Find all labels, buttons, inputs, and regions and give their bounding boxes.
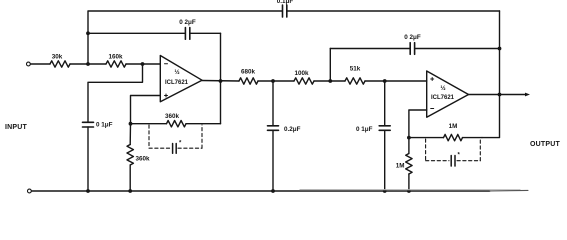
wire 100k to node D	[314, 80, 345, 82]
resistor R8 1M feedback	[444, 123, 463, 141]
wire 0.2uF feedback line (second stage)	[330, 48, 410, 50]
svg-text:½: ½	[440, 84, 445, 92]
op-amp U1 1/2 ICL7621	[160, 56, 202, 102]
svg-text:0 1μF: 0 1μF	[96, 122, 113, 129]
svg-text:ICL7621: ICL7621	[165, 80, 189, 86]
wire 680k to node C	[258, 80, 294, 82]
junction node A top	[86, 31, 90, 35]
junction C3 rail	[271, 189, 275, 193]
junction feedback left node	[129, 122, 133, 126]
svg-text:*: *	[458, 153, 461, 159]
resistor R7 5.1k	[345, 66, 365, 85]
wire node A up	[87, 33, 89, 64]
capacitor top coupling (label clipped at top edge)	[277, 0, 500, 17]
input terminal	[27, 62, 31, 66]
capacitor C3 0.2uF shunt	[268, 126, 301, 133]
resistor R1 30k	[50, 54, 70, 68]
svg-text:360k: 360k	[165, 113, 180, 120]
wire op-amp U1 output	[202, 80, 239, 83]
wire node E shunt leg	[384, 81, 386, 126]
resistor R2 160k	[106, 54, 126, 68]
capacitor C1 0.2uF	[179, 19, 220, 39]
wire op-amp U2 minus input	[409, 110, 427, 138]
wire input lead	[30, 63, 50, 65]
resistor R3 360k feedback	[165, 113, 186, 127]
output arrowhead	[525, 93, 530, 97]
svg-text:0.1μF: 0.1μF	[277, 0, 294, 5]
junction R9 rail	[407, 189, 411, 193]
wire 360k leg	[129, 124, 131, 191]
wire top rail left segment	[88, 11, 282, 33]
junction C2 rail	[86, 189, 90, 193]
junction R4 rail	[128, 189, 132, 193]
resistor R5 680k	[239, 69, 258, 85]
wire ground rail scan smudge	[300, 189, 520, 191]
wire feedback line U2	[409, 137, 482, 139]
svg-text:OUTPUT: OUTPUT	[530, 141, 561, 148]
svg-text:1M: 1M	[396, 163, 405, 170]
junction C4 right	[498, 47, 502, 51]
dashed compensation box U2	[426, 139, 481, 161]
junction feedback left node U2	[407, 136, 411, 140]
dashed compensation box U1	[149, 125, 202, 148]
junction U1 output	[219, 79, 223, 83]
capacitor C5 0.1uF shunt	[356, 126, 390, 133]
svg-text:0 1μF: 0 1μF	[356, 126, 373, 133]
svg-text:½: ½	[174, 68, 179, 76]
resistor R9 1M to ground	[396, 154, 412, 175]
wire C5 to rail	[384, 130, 386, 191]
svg-text:100k: 100k	[294, 70, 309, 77]
op-amp U2 1/2 ICL7621	[427, 71, 469, 117]
svg-text:160k: 160k	[108, 54, 123, 61]
svg-text:1M: 1M	[449, 123, 458, 130]
svg-text:360k: 360k	[136, 156, 151, 163]
wire node B down to 0.1uF leg	[88, 64, 143, 122]
svg-text:0 2μF: 0 2μF	[179, 19, 196, 26]
svg-text:0 2μF: 0 2μF	[404, 34, 421, 41]
wire feedback line U1	[131, 123, 221, 125]
node D junction	[328, 79, 332, 83]
resistor R4 360k to ground	[127, 145, 150, 166]
wire ground rail faded end	[490, 189, 528, 192]
node B	[141, 62, 145, 66]
svg-text:0.2μF: 0.2μF	[284, 126, 301, 133]
node A	[86, 62, 90, 66]
wire 30k to node A	[70, 63, 106, 65]
capacitor C2 0.1uF shunt	[83, 122, 113, 129]
wire right bracket of first stage	[220, 33, 222, 123]
wire 0.2uF feedback line (first stage)	[88, 32, 185, 34]
wire 1M leg	[408, 138, 410, 191]
junction U2 output	[498, 93, 502, 97]
svg-text:680k: 680k	[241, 69, 256, 76]
capacitor C* optional U2	[451, 153, 460, 167]
svg-text:ICL7621: ICL7621	[431, 95, 455, 101]
svg-text:51k: 51k	[350, 66, 361, 73]
wire op-amp U2 output	[469, 94, 527, 96]
svg-text:INPUT: INPUT	[5, 124, 28, 131]
node C junction	[271, 79, 275, 83]
capacitor C* optional U1	[173, 141, 182, 154]
wire 5.1k to op-amp U2	[365, 80, 427, 82]
wire U2 output right bracket down	[482, 11, 500, 138]
capacitor C4 0.2uF feedback	[404, 34, 499, 54]
wire C3 to rail	[272, 130, 274, 191]
wire node C shunt leg	[272, 81, 274, 126]
wire node D up to 0.2uF feedback	[329, 49, 331, 82]
svg-text:*: *	[179, 141, 182, 147]
ground terminal	[28, 189, 32, 193]
wire 160k to node B and into op-amp	[126, 63, 160, 65]
wire ground rail	[31, 190, 490, 192]
wire op-amp U1 plus input	[131, 96, 161, 124]
svg-text:30k: 30k	[52, 54, 63, 61]
resistor R6 100k	[294, 70, 314, 84]
node E junction	[383, 79, 387, 83]
wire 0.1uF to ground rail	[87, 127, 89, 191]
junction C5 rail	[383, 189, 387, 193]
